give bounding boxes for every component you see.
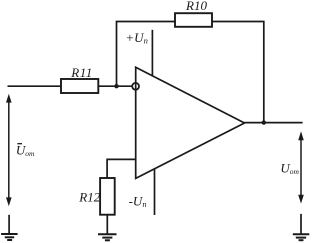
svg-text:R12: R12	[78, 189, 100, 204]
svg-text:R10: R10	[185, 0, 207, 13]
svg-text:Uom: Uom	[16, 143, 35, 158]
svg-text:R11: R11	[70, 65, 92, 80]
svg-text:Uom: Uom	[280, 160, 299, 176]
svg-text:-Un: -Un	[129, 194, 147, 210]
svg-text:+Un: +Un	[125, 30, 147, 46]
